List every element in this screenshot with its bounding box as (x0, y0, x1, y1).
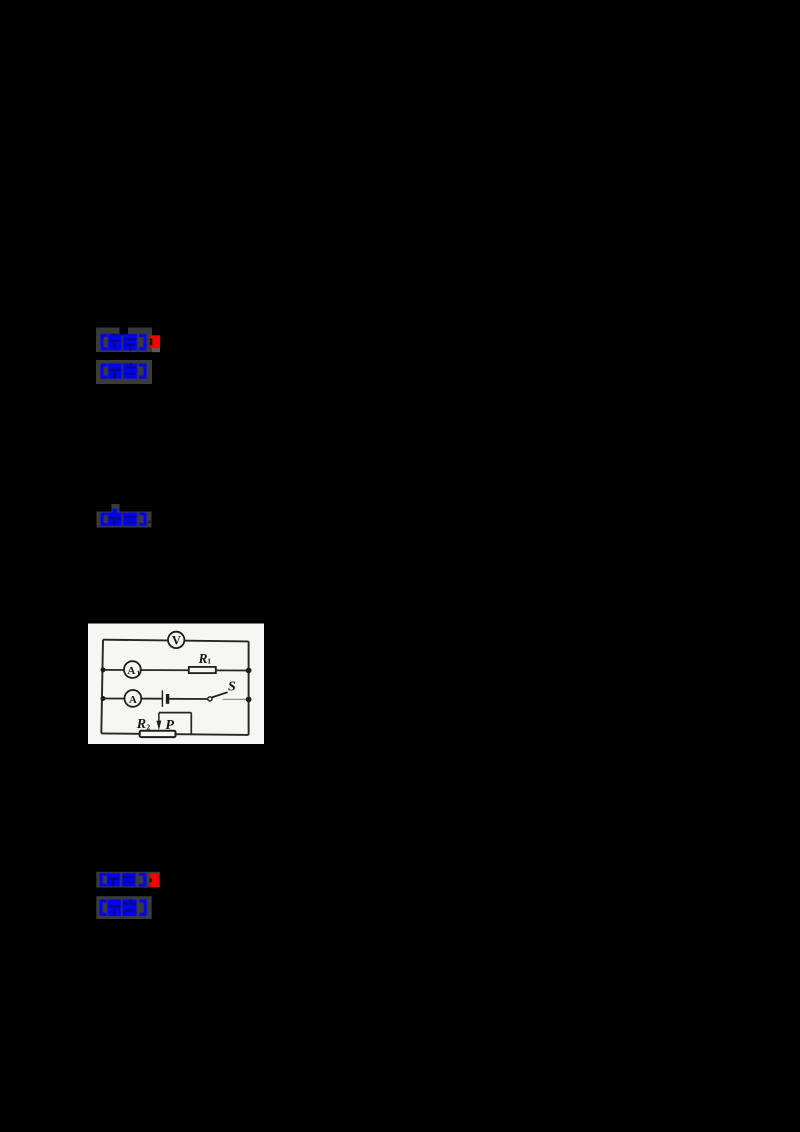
highlight box line2 (analysis label) (96, 360, 152, 384)
slider P stem and arrow (157, 713, 162, 731)
highlight box line3 (comment label) (97, 504, 152, 528)
blue text label 5 (100, 900, 147, 916)
slits in blue text 5 (109, 900, 136, 916)
node c junction dot (101, 696, 106, 701)
slits in blue text 1 (110, 334, 137, 350)
label R1 (198, 651, 212, 666)
svg-text:2: 2 (146, 722, 150, 731)
slits in blue text 2 (109, 364, 136, 379)
label R2 (136, 717, 151, 732)
svg-text:R: R (198, 651, 208, 666)
blue text label 1 (101, 334, 147, 350)
wire right (248, 641, 250, 735)
svg-text:1: 1 (137, 670, 141, 678)
small dark red mark after line3 (148, 521, 151, 524)
rheostat R2 (140, 731, 176, 737)
svg-text:1: 1 (207, 656, 211, 665)
wire top (103, 640, 249, 642)
svg-text:S: S (228, 680, 236, 695)
highlight box line5 (analysis label bottom) (96, 896, 151, 919)
svg-text:A: A (129, 694, 137, 706)
wire left (101, 640, 103, 734)
voltmeter V (168, 632, 184, 648)
blue text label 3 (101, 509, 147, 526)
red answer glyph line4 (150, 873, 159, 887)
blue text label 4 (100, 873, 147, 886)
svg-text:R: R (136, 717, 146, 732)
wire bottom (101, 733, 248, 735)
wire switch to node d (223, 698, 249, 700)
wire middle branch (A1,R1) (103, 669, 249, 672)
wire slider riser (190, 713, 192, 735)
wire slider horizontal (159, 712, 191, 714)
node d junction dot (246, 697, 252, 703)
node a junction dot (101, 667, 106, 672)
node b junction dot (246, 668, 252, 674)
svg-text:A: A (127, 665, 135, 677)
battery cell (162, 690, 169, 706)
red answer glyph line1 (150, 335, 160, 348)
switch S (208, 692, 228, 701)
svg-text:P: P (165, 718, 174, 733)
resistor R1 (189, 667, 216, 673)
slits in blue text 4 (109, 877, 135, 886)
slits in blue text 3 (110, 516, 137, 526)
wire battery branch mid (169, 698, 208, 700)
blue text label 2 (101, 364, 147, 379)
highlight box line4 (answer label bottom) (96, 872, 160, 888)
ammeter A1 (124, 661, 141, 678)
wire battery branch left (103, 698, 162, 700)
circuit image white background (88, 624, 264, 745)
highlight box line1 (answer label) (96, 328, 160, 353)
ammeter A (124, 690, 141, 707)
svg-text:V: V (172, 633, 181, 647)
